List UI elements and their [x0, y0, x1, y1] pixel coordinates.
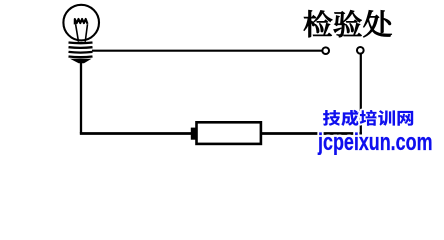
- lamp EL: filament support lead left: [76, 24, 79, 42]
- wire: bottom horizontal, corner to resistor tab: [80, 132, 191, 135]
- lamp EL: screw base thread 1: [69, 41, 93, 44]
- resistor left terminal tab (solid): [191, 128, 197, 140]
- wire: resistor right side to bottom-right corner: [261, 132, 362, 135]
- terminal: left test point (open circle): [322, 47, 329, 54]
- lamp EL: screw base thread 4: [69, 55, 93, 58]
- lamp EL: glass envelope (circle): [63, 5, 99, 41]
- wire: top horizontal, lamp base to left terminal: [92, 50, 323, 52]
- lamp EL: base bottom contact taper: [70, 59, 92, 64]
- terminal: right test point (open circle): [357, 47, 364, 54]
- resistor R (IEC box symbol): [197, 122, 261, 144]
- lamp EL: filament zigzag: [75, 19, 88, 24]
- wire: left vertical, lamp down to bottom-left corner: [80, 62, 82, 134]
- label: 检验处 (inspection point): [304, 10, 392, 37]
- lamp EL: screw base thread 3: [69, 51, 93, 54]
- svg-text:jcpeixun.com: jcpeixun.com: [317, 129, 432, 155]
- lamp EL: screw base thread 2: [69, 46, 93, 49]
- wire: right vertical, right terminal down to bottom-right corner: [360, 54, 362, 135]
- watermark: 技成培训网 (blue with white halo): [323, 110, 413, 126]
- lamp EL: filament support lead right: [85, 24, 87, 42]
